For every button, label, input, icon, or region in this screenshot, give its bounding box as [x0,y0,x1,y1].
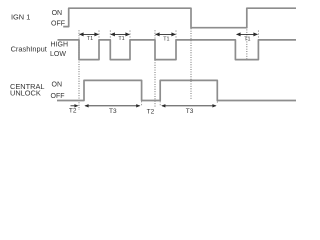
dashed guide x=258.4 [257,30,259,39]
dashed guide x=99 [98,30,100,39]
dim arrow T3 #2 [161.2,216.6] [161,104,216,107]
svg-text:T3: T3 [109,108,117,115]
dashed guide x=141.6 stub [141,101,143,105]
svg-text:ON: ON [52,82,63,89]
svg-text:T3: T3 [186,108,194,115]
svg-text:T1: T1 [87,36,93,42]
svg-text:T1: T1 [163,36,169,42]
dashed guide x=110.3 [109,30,111,39]
svg-text:LOW: LOW [50,51,66,58]
dim arrow T2 #1 (tail + right head at x=78.5) [71,104,79,107]
svg-text:CrashInput: CrashInput [11,44,47,53]
dim arrow T3 #1 [84.4,140.4] [84,104,140,107]
svg-text:T2: T2 [147,108,155,115]
svg-text:ON: ON [52,10,63,17]
svg-text:OFF: OFF [51,93,65,100]
dashed guide x=155 (crash fall3, long) [154,30,156,106]
svg-text:OFF: OFF [51,20,65,27]
dashed guide x=130 [129,30,131,39]
svg-text:T1: T1 [244,37,250,43]
dim arrow T1 #4 [236,258] [236,32,258,36]
svg-text:IGN 1: IGN 1 [11,12,30,21]
dashed guide x=160.2 stub [159,101,161,105]
svg-text:T2: T2 [69,108,77,115]
waveform IGN1 [63,8,296,28]
waveform CENTRAL UNLOCK [57,80,296,100]
dashed guide x=217.3 stub [216,101,218,104]
svg-text:T1: T1 [118,36,124,42]
dashed guide x=176 [175,30,177,39]
dashed guide x=191 (IGN1 fall, long) [190,28,192,99]
waveform CrashInput [58,40,297,60]
svg-text:HIGH: HIGH [51,42,69,49]
dim arrow T1 #2 [110.3,130] [110,32,130,36]
dim arrow T1 #3 [155,176] [155,32,176,36]
dashed guide x=79 (crash fall1, long) [78,30,80,110]
svg-text:UNLOCK: UNLOCK [10,89,41,98]
dim arrow T1 #1 [79,99] [79,32,99,36]
dashed guide x=246.8 (IGN1 rise2) [246,30,248,60]
